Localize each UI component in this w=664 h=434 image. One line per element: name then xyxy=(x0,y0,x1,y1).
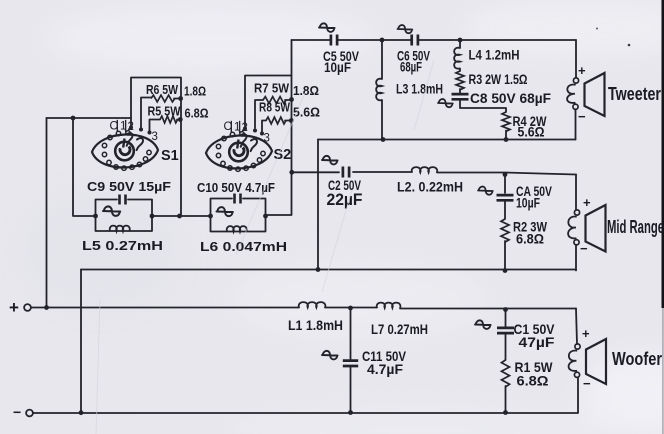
svg-text:R5 5W: R5 5W xyxy=(148,104,182,119)
inductor L4 xyxy=(454,48,460,69)
node R1 bottom junction xyxy=(503,410,508,415)
svg-text:10µF: 10µF xyxy=(516,195,540,211)
node C10 box right xyxy=(263,214,268,219)
capacitor C5 xyxy=(331,35,337,46)
squiggle mark above C5 xyxy=(319,23,335,32)
capacitor C11 xyxy=(343,361,358,366)
ink speck near C6 xyxy=(596,28,598,30)
svg-text:+: + xyxy=(578,63,586,78)
svg-text:22µF: 22µF xyxy=(327,190,363,209)
wire R1 bottom lead xyxy=(505,386,507,413)
svg-text:+: + xyxy=(583,195,591,210)
svg-text:Mid Range: Mid Range xyxy=(607,217,664,237)
inductor L7 xyxy=(377,303,401,308)
wire C8 to R4 xyxy=(460,99,506,112)
minus input terminal xyxy=(13,404,33,420)
wire L4 branch upper xyxy=(459,40,461,48)
plus input terminal xyxy=(9,298,31,317)
inductor L1 xyxy=(299,302,326,307)
resistor R7 xyxy=(263,97,286,104)
wire woofer rail mid xyxy=(325,307,377,309)
svg-text:L3 1.8mH: L3 1.8mH xyxy=(396,81,443,97)
svg-text:L6 0.047mH: L6 0.047mH xyxy=(200,239,287,254)
squiggle mark left of CA xyxy=(478,187,493,195)
svg-text:−: − xyxy=(583,376,591,391)
svg-text:−: − xyxy=(13,404,21,420)
wire filter link xyxy=(152,215,210,217)
svg-text:R7 5W: R7 5W xyxy=(254,81,290,96)
node C2 input junction xyxy=(289,170,294,175)
svg-text:1.8Ω: 1.8Ω xyxy=(293,83,319,98)
wire tweeter minus vertical xyxy=(575,110,577,140)
svg-text:R8 5W: R8 5W xyxy=(259,100,291,115)
svg-text:L5 0.27mH: L5 0.27mH xyxy=(82,238,163,253)
wire bus top to S1 common xyxy=(47,117,132,119)
squiggle mark left of C11 xyxy=(322,351,338,360)
inductor L6 xyxy=(227,226,247,231)
wire woofer rail right xyxy=(400,308,576,310)
svg-text:Woofer: Woofer xyxy=(612,349,662,369)
node R4 bottom junction xyxy=(504,137,509,142)
resistor R5 xyxy=(160,116,178,123)
node S1 contact 3 xyxy=(148,131,152,135)
svg-text:4.7µF: 4.7µF xyxy=(367,362,403,377)
wire CA-R2 link xyxy=(504,200,506,219)
wire R6 right lead xyxy=(174,98,181,100)
node C10 box left xyxy=(208,214,213,219)
inductor L3 xyxy=(376,79,382,101)
wire mid minus vertical xyxy=(575,245,577,271)
wire C11 upper lead xyxy=(350,308,352,359)
node L3 bottom junction xyxy=(381,137,386,142)
inductor L5 xyxy=(110,226,130,231)
node C9 box left xyxy=(93,214,98,219)
capacitor C2 xyxy=(343,167,349,178)
squiggle mark left of C8 xyxy=(438,99,453,107)
squiggle mark above C6 xyxy=(398,25,413,33)
wire C10/L6 box xyxy=(211,199,266,232)
svg-text:−: − xyxy=(578,109,586,124)
node C1 top junction xyxy=(503,307,508,312)
node plus bus corner xyxy=(44,305,49,310)
wire S1 outer loop xyxy=(131,78,181,217)
switch S1 xyxy=(92,134,158,167)
svg-text:6.8Ω: 6.8Ω xyxy=(517,373,549,389)
squiggle mark in C10 box xyxy=(217,207,233,216)
faint scan smudge lines xyxy=(96,60,434,434)
wire CA upper lead xyxy=(504,175,506,194)
svg-text:C: C xyxy=(110,121,118,133)
wire S2 outer loop xyxy=(245,76,292,128)
node R2 bottom junction xyxy=(503,268,508,273)
wire mid-return vertical x81 xyxy=(80,270,82,413)
capacitor C9 xyxy=(120,195,126,205)
node S1 contact 1 xyxy=(139,128,143,132)
wire left bus vertical xyxy=(46,118,48,308)
node S2 contact 1 xyxy=(253,129,257,133)
node link S1 box right xyxy=(150,214,155,219)
wire mid plus vertical xyxy=(575,175,577,210)
svg-text:S1: S1 xyxy=(161,148,179,164)
wire tweeter plus vertical xyxy=(575,40,577,78)
wire S2 right bus vertical x291 xyxy=(266,40,292,215)
squiggle mark in C9 box xyxy=(103,206,120,215)
node C11 top junction xyxy=(348,306,353,311)
svg-text:6.8Ω: 6.8Ω xyxy=(516,231,544,247)
wire plus rail left xyxy=(31,307,299,309)
capacitor CA xyxy=(497,195,514,200)
svg-text:L4 1.2mH: L4 1.2mH xyxy=(469,47,520,63)
capacitor C6 xyxy=(412,35,418,46)
wire R7 right lead xyxy=(285,99,291,101)
node CA top junction xyxy=(503,172,508,177)
capacitor C1 xyxy=(497,328,514,333)
inductor L2 xyxy=(412,167,438,172)
wire S1 contact1 to R6 xyxy=(141,98,151,129)
svg-text:L1 1.8mH: L1 1.8mH xyxy=(288,318,343,333)
ink speck top right xyxy=(628,44,631,47)
speaker mid symbol xyxy=(574,210,579,215)
node minus junction x81 xyxy=(79,410,84,415)
svg-text:5.6Ω: 5.6Ω xyxy=(518,124,545,139)
node S2 contact C xyxy=(243,127,247,131)
svg-text:+: + xyxy=(582,326,590,341)
svg-text:C: C xyxy=(224,121,232,133)
resistor R1 xyxy=(502,360,510,387)
svg-text:6.8Ω: 6.8Ω xyxy=(185,106,209,121)
wire S2 contact3 to R8 xyxy=(262,121,266,133)
node x318 mid return junction xyxy=(316,267,321,272)
wire C9/L5 box xyxy=(96,200,153,232)
capacitor C8 xyxy=(452,94,469,99)
node link x180 junction xyxy=(177,214,182,219)
svg-text:C8 50V 68µF: C8 50V 68µF xyxy=(470,91,551,106)
resistor R8 xyxy=(266,117,286,124)
svg-text:+: + xyxy=(9,298,19,317)
wire R3-C8 link xyxy=(459,89,461,94)
capacitor C10 xyxy=(235,194,241,204)
node R8 right junction xyxy=(289,118,294,123)
wire mid rail center xyxy=(353,171,412,173)
node R6 right junction xyxy=(178,96,183,101)
squiggle mark left of C1 xyxy=(475,320,491,329)
wire tweeter bottom rail xyxy=(318,139,576,141)
wire minus rail xyxy=(33,412,578,414)
wire C11 lower lead xyxy=(350,367,352,413)
svg-text:Tweeter: Tweeter xyxy=(608,84,661,104)
wire R4 bottom lead xyxy=(505,131,507,140)
node L4 top junction xyxy=(458,38,463,43)
node C11 bottom junction xyxy=(348,410,353,415)
svg-text:L2. 0.22mH: L2. 0.22mH xyxy=(397,180,463,195)
node bus S1 feed xyxy=(71,116,76,121)
squiggle mark above C2 xyxy=(322,156,338,165)
scanner black bar right edge xyxy=(662,0,664,308)
resistor R4 xyxy=(502,112,510,131)
svg-text:1.8Ω: 1.8Ω xyxy=(184,84,206,99)
wire S2 contact1 to R7 xyxy=(255,100,263,128)
wire C1 upper lead xyxy=(505,310,507,328)
svg-text:L7 0.27mH: L7 0.27mH xyxy=(371,322,428,337)
wire S1 contact3 to R5 xyxy=(150,120,161,133)
node R5 right junction xyxy=(178,117,183,122)
switch S2 xyxy=(206,135,272,168)
wire C1-R1 link xyxy=(505,334,507,361)
wire mid bottom rail xyxy=(81,269,576,271)
speaker tweeter symbol xyxy=(573,78,578,83)
svg-text:C9 50V 15µF: C9 50V 15µF xyxy=(87,179,171,194)
svg-text:C10 50V 4.7µF: C10 50V 4.7µF xyxy=(197,180,275,195)
wire S1 feed down xyxy=(73,118,95,216)
svg-text:47µF: 47µF xyxy=(519,334,555,350)
svg-text:10µF: 10µF xyxy=(324,59,351,75)
wire R5 right lead xyxy=(177,119,181,121)
wire R8 right lead xyxy=(285,120,291,122)
wire tweeter-return to mid-return x318 xyxy=(317,140,319,270)
wire woofer plus vertical xyxy=(576,309,577,345)
svg-text:68µF: 68µF xyxy=(400,59,422,75)
node S1 contact C xyxy=(129,126,133,130)
node S2 contact 3 xyxy=(260,132,264,136)
wire mid rail left xyxy=(292,171,339,173)
svg-text:R6 5W: R6 5W xyxy=(146,82,179,97)
wire tweeter top rail xyxy=(292,39,577,41)
node L3 top junction xyxy=(380,38,385,43)
resistor R6 xyxy=(151,95,175,102)
resistor R2 xyxy=(501,219,509,242)
wire woofer minus vertical xyxy=(577,378,579,413)
speaker woofer symbol xyxy=(575,344,580,349)
wire L4-R3 link xyxy=(459,69,461,72)
wire L3 branch upper xyxy=(381,40,383,79)
wire mid rail right xyxy=(437,173,576,175)
node R7 right junction xyxy=(289,97,294,102)
wire R2 bottom lead xyxy=(504,241,506,271)
wire L3 branch lower xyxy=(381,100,383,140)
resistor R3 xyxy=(456,71,464,90)
svg-text:R3 2W 1.5Ω: R3 2W 1.5Ω xyxy=(469,72,528,87)
